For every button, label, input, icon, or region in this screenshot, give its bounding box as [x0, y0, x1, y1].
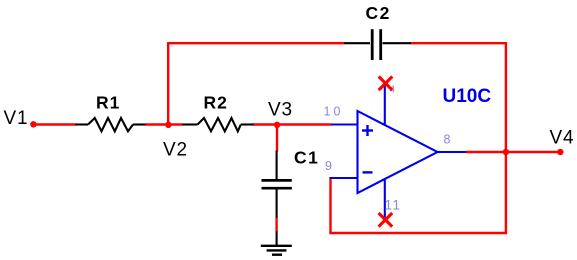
op-amp output pin 8 lead — [438, 151, 467, 153]
wire right vertical from C2 down to bottom feedback — [505, 42, 507, 234]
wire V3 vertical down to C1 — [276, 125, 278, 152]
svg-text:V3: V3 — [268, 100, 293, 121]
op-amp pin 9 lead — [330, 177, 358, 179]
wire top horizontal right of C2 — [411, 42, 508, 44]
wire op-amp output to V4 — [466, 151, 561, 153]
svg-text:V2: V2 — [163, 140, 188, 161]
svg-text:11: 11 — [385, 198, 402, 213]
svg-text:R2: R2 — [204, 93, 228, 113]
node V2 junction dot — [165, 122, 171, 128]
no-connect X on pin 11 — [379, 213, 393, 227]
svg-text:9: 9 — [325, 159, 332, 173]
svg-text:8: 8 — [444, 133, 451, 147]
wire V2 vertical up to C2 branch — [167, 43, 169, 125]
ground — [261, 232, 292, 255]
svg-text:10: 10 — [324, 105, 344, 119]
op-amp plus input symbol — [362, 125, 373, 136]
node V4 terminal dot — [557, 149, 563, 155]
svg-text:C1: C1 — [294, 148, 319, 168]
svg-text:V4: V4 — [550, 127, 575, 148]
capacitor C1 — [262, 151, 292, 218]
op-amp pin 10 lead — [331, 123, 358, 125]
op-amp U10C — [358, 111, 438, 193]
resistor R2 — [183, 118, 254, 131]
wire V1 to R1 — [34, 123, 77, 125]
node V1 terminal dot — [30, 121, 36, 127]
resistor R1 — [76, 118, 146, 131]
wire R2 to node V3 — [253, 123, 278, 125]
no-connect X on pin 4 — [379, 77, 393, 91]
op-amp negative power stem pin 11 — [384, 179, 386, 218]
svg-text:V1: V1 — [4, 108, 29, 129]
node V3 junction dot — [274, 122, 280, 128]
wire C1 to ground — [275, 217, 277, 233]
svg-text:U10C: U10C — [443, 86, 492, 107]
op-amp positive power stem pin 4 — [384, 85, 386, 126]
wire left feedback vertical up to pin 9 — [329, 177, 331, 234]
capacitor C2 — [344, 29, 411, 60]
svg-text:C2: C2 — [366, 3, 391, 23]
wire top horizontal left of C2 — [167, 42, 345, 44]
wire R1 to R2 through node V2 — [145, 123, 183, 125]
wire bottom feedback horizontal — [329, 232, 507, 234]
wire V3 to op-amp pin 10 — [277, 123, 332, 125]
op-amp minus input symbol — [363, 171, 373, 173]
svg-text:R1: R1 — [96, 93, 120, 113]
output junction dot — [503, 149, 509, 155]
